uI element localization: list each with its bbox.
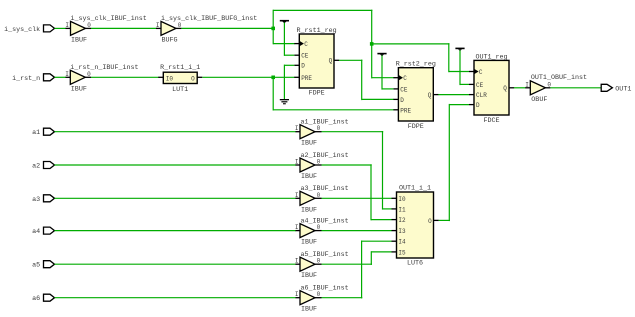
svg-text:a3_IBUF_inst: a3_IBUF_inst: [301, 185, 349, 193]
svg-text:OUT1_i_1: OUT1_i_1: [399, 185, 431, 193]
svg-text:FDCE: FDCE: [483, 117, 499, 125]
svg-text:a6_IBUF_inst: a6_IBUF_inst: [301, 285, 349, 293]
svg-text:O: O: [428, 218, 432, 225]
svg-text:Q: Q: [428, 92, 432, 99]
svg-text:IBUF: IBUF: [71, 85, 87, 93]
svg-text:I5: I5: [398, 249, 406, 256]
svg-text:0: 0: [87, 71, 91, 78]
svg-text:C: C: [403, 75, 407, 82]
svg-text:a5_IBUF_inst: a5_IBUF_inst: [301, 251, 349, 259]
svg-text:R_rst2_reg: R_rst2_reg: [396, 61, 436, 69]
svg-text:CE: CE: [301, 53, 309, 60]
svg-text:IBUF: IBUF: [301, 173, 317, 181]
svg-text:I4: I4: [398, 239, 406, 246]
svg-text:I0: I0: [166, 75, 174, 82]
svg-text:OUT1_OBUF_inst: OUT1_OBUF_inst: [531, 74, 587, 82]
svg-text:OBUF: OBUF: [531, 96, 547, 104]
svg-text:a3: a3: [32, 196, 40, 204]
svg-text:R_rst1_i_1: R_rst1_i_1: [160, 64, 200, 72]
svg-text:D: D: [476, 102, 480, 109]
svg-text:IBUF: IBUF: [301, 306, 317, 314]
svg-text:a1: a1: [32, 129, 40, 137]
svg-text:i_sys_clk: i_sys_clk: [4, 26, 40, 34]
svg-text:LUT6: LUT6: [407, 260, 423, 268]
svg-text:PRE: PRE: [400, 107, 411, 114]
svg-text:I: I: [295, 125, 299, 132]
svg-text:C: C: [304, 41, 308, 48]
svg-text:LUT1: LUT1: [172, 86, 188, 94]
svg-text:I: I: [65, 22, 69, 29]
svg-text:I1: I1: [398, 206, 406, 213]
svg-text:a2: a2: [32, 163, 40, 171]
svg-text:i_sys_clk_IBUF_inst: i_sys_clk_IBUF_inst: [71, 15, 147, 23]
svg-text:I: I: [295, 224, 299, 231]
svg-text:a4: a4: [32, 228, 40, 236]
svg-text:a4_IBUF_inst: a4_IBUF_inst: [301, 217, 349, 225]
svg-text:CE: CE: [476, 82, 484, 89]
svg-text:IBUF: IBUF: [301, 206, 317, 214]
svg-text:a5: a5: [32, 262, 40, 270]
svg-text:BUFG: BUFG: [162, 36, 178, 44]
svg-text:CE: CE: [400, 86, 408, 93]
svg-text:C: C: [479, 69, 483, 76]
svg-text:a1_IBUF_inst: a1_IBUF_inst: [301, 119, 349, 127]
svg-text:IBUF: IBUF: [71, 36, 87, 44]
svg-text:i_rst_n_IBUF_inst: i_rst_n_IBUF_inst: [70, 64, 138, 72]
svg-text:I: I: [295, 258, 299, 265]
svg-text:IBUF: IBUF: [301, 272, 317, 280]
svg-text:O: O: [191, 75, 195, 82]
svg-text:a2_IBUF_inst: a2_IBUF_inst: [301, 152, 349, 160]
svg-text:i_rst_n: i_rst_n: [12, 75, 40, 83]
svg-text:I: I: [295, 291, 299, 298]
svg-text:PRE: PRE: [301, 75, 312, 82]
svg-text:R_rst1_reg: R_rst1_reg: [297, 27, 337, 35]
svg-text:I3: I3: [398, 228, 406, 235]
svg-text:IBUF: IBUF: [301, 140, 317, 148]
svg-text:CLR: CLR: [476, 92, 487, 99]
svg-text:Q: Q: [503, 85, 507, 92]
svg-text:i_sys_clk_IBUF_BUFG_inst: i_sys_clk_IBUF_BUFG_inst: [161, 15, 257, 23]
svg-text:D: D: [400, 97, 404, 104]
svg-text:FDPE: FDPE: [309, 90, 325, 98]
svg-text:I: I: [65, 71, 69, 78]
svg-text:Q: Q: [329, 58, 333, 65]
svg-text:I: I: [156, 22, 160, 29]
svg-text:IBUF: IBUF: [301, 239, 317, 247]
svg-text:I: I: [295, 192, 299, 199]
svg-text:a6: a6: [32, 295, 40, 303]
svg-text:I: I: [295, 159, 299, 166]
svg-text:OUT1: OUT1: [615, 86, 631, 94]
svg-text:I: I: [525, 81, 529, 88]
svg-text:I0: I0: [398, 196, 406, 203]
svg-text:I2: I2: [398, 217, 406, 224]
svg-text:OUT1_reg: OUT1_reg: [475, 53, 507, 61]
svg-text:D: D: [301, 63, 305, 70]
svg-text:FDPE: FDPE: [408, 123, 424, 131]
